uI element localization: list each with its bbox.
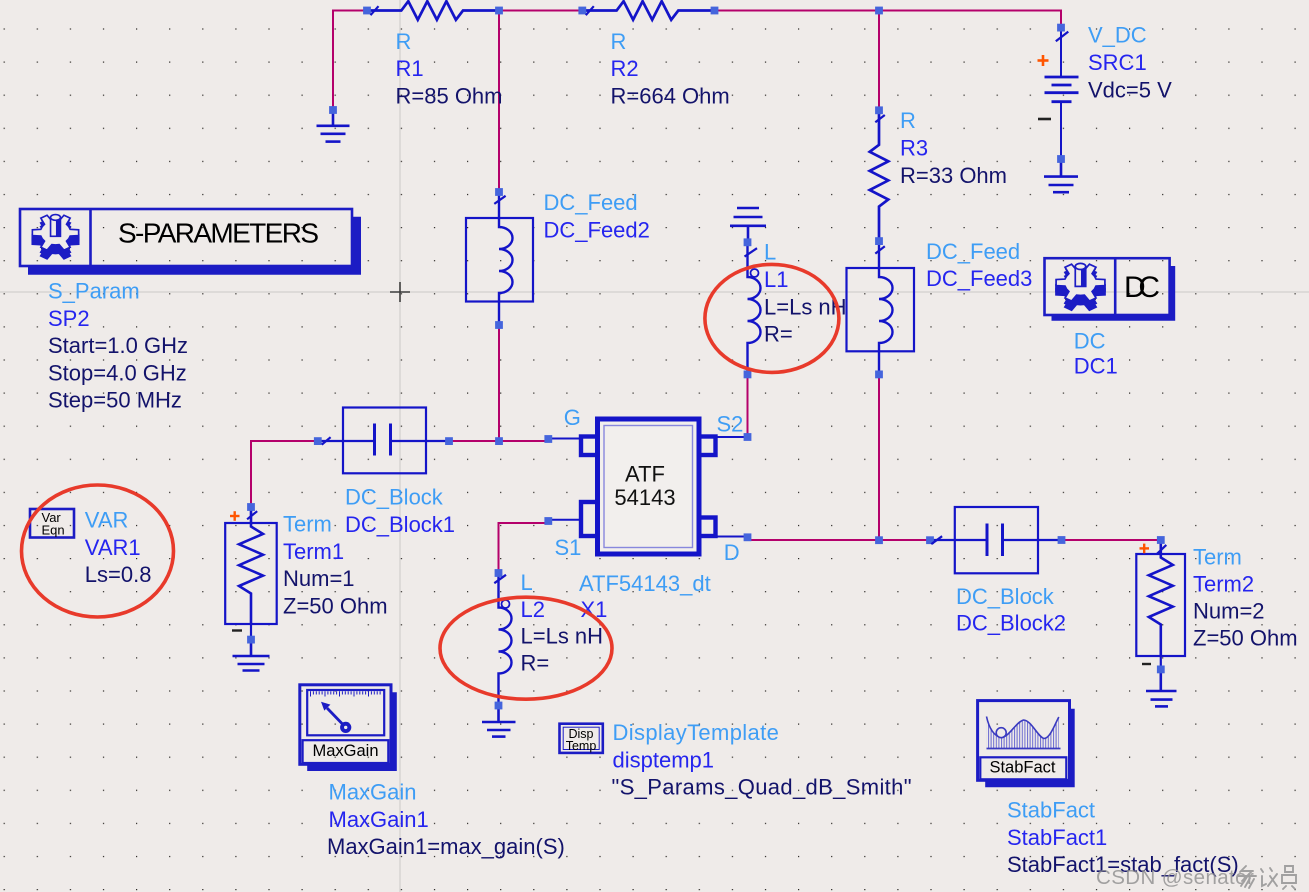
svg-text:DC: DC xyxy=(1074,329,1106,354)
wire drain to DC_Block2 xyxy=(750,539,930,541)
resistor R3 xyxy=(870,110,889,241)
pin label G xyxy=(564,405,581,430)
red highlight ellipse around L2 xyxy=(440,597,612,699)
red highlight ellipse around VAR1 xyxy=(22,485,174,617)
svg-text:Num=1: Num=1 xyxy=(283,566,355,591)
minus sign of Term2 xyxy=(1142,663,1151,665)
wire R1 to R2 xyxy=(499,10,582,12)
svg-text:L=Ls nH: L=Ls nH xyxy=(521,624,604,649)
svg-text:DC: DC xyxy=(1124,271,1160,304)
svg-text:DC_Block: DC_Block xyxy=(956,584,1055,609)
wire DC_Block1 to Term1 xyxy=(251,441,318,507)
svg-text:S_Param: S_Param xyxy=(48,279,140,304)
DC_Block DC_Block2 xyxy=(930,507,1062,573)
svg-text:disptemp1: disptemp1 xyxy=(613,747,715,772)
wire DC_Block1 to junction to gate xyxy=(449,440,546,442)
svg-text:DisplayTemplate: DisplayTemplate xyxy=(613,720,780,745)
svg-text:R: R xyxy=(396,29,412,54)
svg-text:SP2: SP2 xyxy=(48,306,90,331)
svg-text:DC_Feed2: DC_Feed2 xyxy=(544,218,650,243)
svg-text:StabFact: StabFact xyxy=(989,759,1055,777)
svg-text:Vdc=5 V: Vdc=5 V xyxy=(1088,77,1172,102)
svg-text:VAR1: VAR1 xyxy=(85,535,141,560)
svg-text:DC_Block1: DC_Block1 xyxy=(345,512,455,537)
pin label D xyxy=(724,540,740,565)
red highlight ellipse around L1 xyxy=(705,264,839,372)
svg-text:R=: R= xyxy=(764,322,793,347)
svg-text:DC_Block: DC_Block xyxy=(345,485,444,510)
svg-text:Stop=4.0 GHz: Stop=4.0 GHz xyxy=(48,360,187,385)
svg-text:ATF54143_dt: ATF54143_dt xyxy=(579,571,711,596)
svg-text:L1: L1 xyxy=(764,267,788,292)
ground below L2 xyxy=(482,706,516,737)
svg-text:MaxGain1: MaxGain1 xyxy=(329,807,429,832)
svg-text:R=33 Ohm: R=33 Ohm xyxy=(900,163,1007,188)
inductor L1 xyxy=(748,242,761,374)
ground top-left xyxy=(317,110,350,142)
svg-text:MaxGain: MaxGain xyxy=(312,742,378,760)
wire L1 to S2 xyxy=(747,374,749,437)
svg-text:Temp: Temp xyxy=(566,739,597,753)
pin and junction squares xyxy=(247,7,1165,710)
S-PARAMETERS simulation controller box xyxy=(20,209,361,275)
VAR equation block VAR1 xyxy=(30,509,74,538)
svg-text:MaxGain: MaxGain xyxy=(329,780,417,805)
svg-text:L: L xyxy=(764,240,776,265)
resistor R2 xyxy=(582,1,714,20)
resistor R1 xyxy=(367,1,499,20)
svg-text:Term: Term xyxy=(283,512,332,537)
svg-text:CSDN @senator: CSDN @senator xyxy=(1096,866,1254,889)
svg-text:MaxGain1=max_gain(S): MaxGain1=max_gain(S) xyxy=(327,834,565,859)
svg-text:Term: Term xyxy=(1193,545,1242,570)
transistor X1 ATF54143 xyxy=(548,419,747,554)
svg-text:R=664 Ohm: R=664 Ohm xyxy=(611,83,730,108)
svg-text:R1: R1 xyxy=(396,56,424,81)
svg-text:VAR: VAR xyxy=(85,508,129,533)
svg-text:Eqn: Eqn xyxy=(42,522,65,537)
origin crosshair xyxy=(390,282,410,302)
svg-text:L: L xyxy=(521,570,533,595)
svg-text:DC_Feed3: DC_Feed3 xyxy=(926,266,1032,291)
DC_Block DC_Block1 xyxy=(318,408,449,474)
DC voltage source SRC1 xyxy=(1045,28,1079,159)
svg-text:Ls=0.8: Ls=0.8 xyxy=(85,562,152,587)
wire junction to R3 xyxy=(878,11,880,111)
svg-text:R: R xyxy=(611,29,627,54)
wire top-left to ground xyxy=(333,11,367,111)
svg-text:Z=50 Ohm: Z=50 Ohm xyxy=(283,593,388,618)
svg-text:DC_Feed: DC_Feed xyxy=(926,239,1020,264)
minus sign of SRC1 xyxy=(1038,118,1051,121)
pin label S2 xyxy=(717,411,744,436)
svg-text:V_DC: V_DC xyxy=(1088,23,1147,48)
minus sign of Term1 xyxy=(232,629,242,631)
svg-text:Z=50 Ohm: Z=50 Ohm xyxy=(1193,625,1298,650)
inductor L2 xyxy=(499,573,512,706)
DC_Feed DC_Feed2 xyxy=(466,192,533,325)
svg-text:DC1: DC1 xyxy=(1074,353,1118,378)
svg-text:StabFact1: StabFact1 xyxy=(1007,825,1107,850)
ground below SRC1 xyxy=(1044,159,1078,192)
pin-1 slash marks xyxy=(247,6,1166,583)
plus sign of Term2 xyxy=(1140,544,1150,554)
svg-text:DC_Feed: DC_Feed xyxy=(544,190,638,215)
svg-text:StabFact: StabFact xyxy=(1007,798,1095,823)
svg-text:R: R xyxy=(900,108,916,133)
DC_Feed DC_Feed3 xyxy=(847,241,915,374)
wire R2 to VDC xyxy=(715,11,1062,28)
svg-text:R=: R= xyxy=(521,650,550,675)
plus sign of Term1 xyxy=(230,511,240,521)
CSDN watermark xyxy=(1096,866,1296,889)
wire DC_Feed3 down to drain net xyxy=(878,374,880,540)
svg-text:Term2: Term2 xyxy=(1193,572,1254,597)
svg-text:Step=50 MHz: Step=50 MHz xyxy=(48,388,182,413)
svg-text:R=85 Ohm: R=85 Ohm xyxy=(396,83,503,108)
wire S1 to L2 xyxy=(499,523,547,573)
wire DC_Block2 to Term2 xyxy=(1062,539,1161,541)
svg-text:SRC1: SRC1 xyxy=(1088,50,1147,75)
terminal Term1 xyxy=(225,507,277,640)
pin label S1 xyxy=(555,535,582,560)
svg-text:S1: S1 xyxy=(555,535,582,560)
ground below Term2 xyxy=(1146,669,1177,706)
ground below Term1 xyxy=(233,640,270,671)
svg-text:R3: R3 xyxy=(900,136,928,161)
svg-text:R2: R2 xyxy=(611,56,639,81)
plus sign of SRC1 xyxy=(1038,55,1049,66)
DisplayTemplate icon disptemp1 xyxy=(560,724,603,753)
svg-text:Num=2: Num=2 xyxy=(1193,598,1265,623)
ground above L1 (inverted) xyxy=(730,208,766,242)
wire R1 junction down to DC_Feed2 xyxy=(498,14,500,192)
svg-text:L2: L2 xyxy=(521,597,545,622)
svg-text:G: G xyxy=(564,405,581,430)
svg-text:ATF: ATF xyxy=(625,462,665,487)
svg-text:54143: 54143 xyxy=(614,485,675,510)
DC simulation controller box xyxy=(1045,258,1176,321)
StabFact measurement icon xyxy=(978,701,1075,788)
terminal Term2 xyxy=(1136,540,1185,669)
svg-text:D: D xyxy=(724,540,740,565)
svg-text:DC_Block2: DC_Block2 xyxy=(956,611,1066,636)
svg-text:S2: S2 xyxy=(717,411,744,436)
wire DC_Feed2 to gate junction xyxy=(498,325,500,441)
svg-text:"S_Params_Quad_dB_Smith": "S_Params_Quad_dB_Smith" xyxy=(612,775,912,800)
svg-text:S-PARAMETERS: S-PARAMETERS xyxy=(118,217,319,248)
svg-text:Term1: Term1 xyxy=(283,539,344,564)
MaxGain measurement icon xyxy=(300,685,397,771)
svg-text:Start=1.0 GHz: Start=1.0 GHz xyxy=(48,333,188,358)
